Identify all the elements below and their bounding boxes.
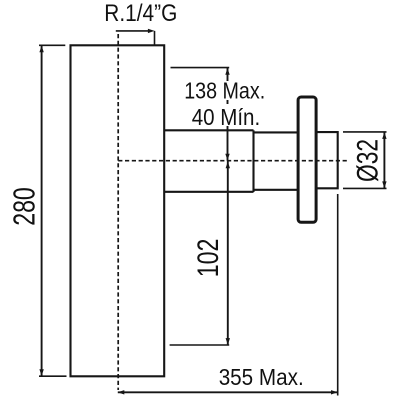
dim diam32 bottom extension [343,187,387,189]
R.1/4 leader vertical [154,31,156,45]
arrow leader right [148,29,155,33]
arrow 355 left [118,390,125,394]
dim 138/40 vertical line [227,68,229,161]
svg-text:R.1/4”G: R.1/4”G [104,0,177,27]
pipe section 1 bottom edge [164,191,253,193]
pipe section 2 top edge [254,131,299,133]
horizontal centerline [118,160,347,162]
pipe section 1 top edge [164,129,253,131]
dim 280 bottom extension [39,375,67,377]
dim 280 top extension [39,44,65,46]
svg-text:Ø32: Ø32 [352,139,385,182]
arrow 102 top [226,162,230,169]
arrow 280 bottom [39,369,43,376]
svg-text:40 Mín.: 40 Mín. [192,104,261,130]
step between pipe sections [252,130,254,192]
arrow 138 top [225,68,229,75]
arrow 355 right [331,390,338,394]
svg-text:280: 280 [8,187,42,226]
svg-text:355 Max.: 355 Max. [219,364,304,390]
vertical centerline [117,34,119,390]
dim 102 bottom hook line [170,344,230,346]
dim 355 line [118,391,338,393]
svg-text:102: 102 [192,238,225,277]
white mask under 138/40 text [183,81,264,126]
wall plate body [71,45,165,376]
dim 102 vertical line [227,161,229,345]
arrow 280 top [39,46,43,53]
dim diam32 line [383,132,385,188]
dim 280 line [41,46,43,376]
pipe section 2 bottom edge [254,189,299,191]
flange [298,97,316,222]
dim 138/40 hook line [171,67,230,69]
pipe section 3 (outlet) [316,132,338,188]
arrow diam32 top [382,132,386,139]
arrow 138 bottom [225,154,229,161]
dim diam32 top extension [343,131,387,133]
svg-text:138 Max.: 138 Max. [184,78,265,104]
R.1/4 leader horizontal [116,30,150,32]
arrow diam32 bottom [382,181,386,188]
dim 355 right extension [337,194,339,396]
arrow 102 bottom [226,338,230,345]
